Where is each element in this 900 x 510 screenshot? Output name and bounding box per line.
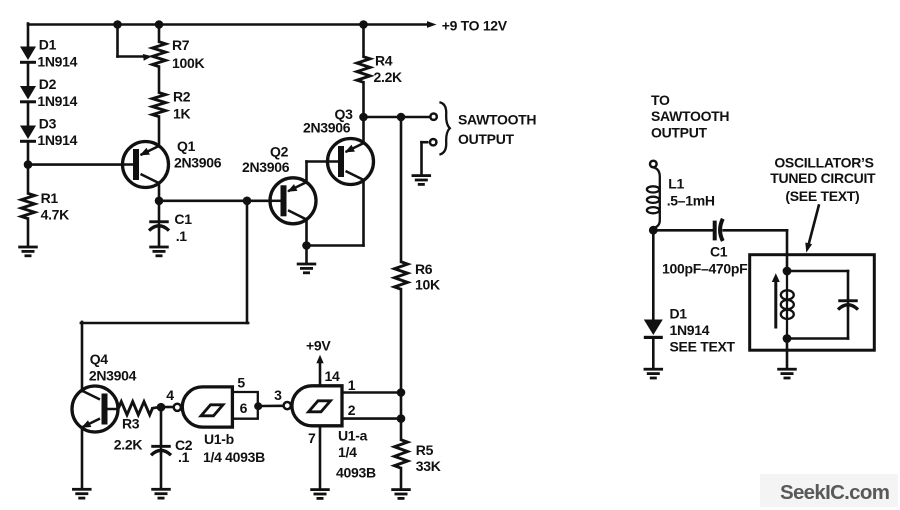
- junction on rail at R4: [359, 20, 368, 29]
- ground below D1 (right): [644, 368, 664, 380]
- diode D1 (right): [644, 320, 663, 340]
- transistor Q3 (PNP 2N3906): [327, 139, 374, 185]
- ground below U1-a pin 7: [310, 488, 330, 500]
- capacitor C1: [149, 220, 169, 230]
- resistor R3 (horizontal): [119, 402, 153, 415]
- svg-text:2N3906: 2N3906: [303, 120, 351, 136]
- svg-text:100K: 100K: [172, 55, 204, 71]
- svg-text:1N914: 1N914: [37, 53, 77, 69]
- capacitor C1 (right, series): [715, 219, 723, 241]
- ground below C2: [151, 488, 171, 500]
- transistor Q4 (NPN 2N3904): [72, 386, 119, 432]
- wire node to D1 (right): [652, 230, 655, 320]
- wire output node down to R6: [400, 117, 403, 262]
- svg-text:3: 3: [274, 387, 282, 403]
- svg-text:SeekIC.com: SeekIC.com: [780, 481, 889, 504]
- svg-text:.1: .1: [178, 449, 190, 465]
- wire D2 to D3: [27, 102, 30, 126]
- resistor R1: [21, 193, 34, 218]
- svg-text:2: 2: [348, 402, 356, 418]
- ground below Q4: [72, 488, 92, 500]
- svg-text:OUTPUT: OUTPUT: [458, 131, 515, 147]
- svg-text:Q4: Q4: [90, 351, 109, 367]
- watermark SeekIC.com: [760, 474, 898, 507]
- wire node to U1-b output bubble: [165, 406, 174, 409]
- svg-text:R1: R1: [41, 190, 59, 206]
- wire C2 to ground: [160, 452, 163, 489]
- svg-text:SEE TEXT: SEE TEXT: [670, 339, 736, 355]
- wire R5 to ground: [400, 468, 403, 489]
- op gate U1-b output bubble (pin 4): [174, 404, 181, 411]
- tank capacitor: [838, 299, 858, 309]
- svg-text:Q1: Q1: [177, 138, 196, 154]
- transistor Q1 (PNP 2N3906): [122, 142, 169, 188]
- wire tank top to cap: [787, 270, 848, 273]
- svg-text:100pF–470pF: 100pF–470pF: [662, 261, 748, 277]
- svg-text:4: 4: [166, 387, 174, 403]
- junction on rail at wiper: [113, 20, 122, 29]
- junction Q2 base wire to gate feedback: [243, 197, 252, 206]
- wire Q3 collector across: [307, 244, 364, 247]
- ground below Q2: [297, 263, 317, 275]
- svg-text:OSCILLATOR’S: OSCILLATOR’S: [774, 155, 873, 171]
- pointer arrow to box: [808, 206, 819, 247]
- svg-text:R2: R2: [173, 89, 191, 105]
- svg-text:R3: R3: [122, 416, 140, 432]
- wire to output terminal: [364, 116, 431, 119]
- svg-text:U1-b: U1-b: [204, 431, 234, 447]
- R7 wiper arrowhead: [143, 54, 152, 61]
- wire pin 1: [342, 391, 401, 394]
- junction on rail at R7: [155, 20, 164, 29]
- arrowhead +V rail: [427, 21, 437, 28]
- tank inductor: [781, 271, 794, 339]
- output terminal upper: [430, 114, 436, 120]
- svg-text:2.2K: 2.2K: [114, 436, 143, 452]
- wire feedback across: [81, 322, 248, 325]
- junction tank top: [783, 267, 792, 276]
- svg-text:R6: R6: [415, 261, 433, 277]
- svg-text:4093B: 4093B: [336, 464, 376, 480]
- wire node A to Q1 base: [28, 163, 123, 166]
- svg-text:TO: TO: [651, 92, 670, 108]
- svg-text:6: 6: [240, 400, 248, 416]
- svg-text:2.2K: 2.2K: [374, 69, 403, 85]
- wire rail to D1: [27, 24, 30, 48]
- wire R4 to Q3 emitter node: [362, 82, 365, 117]
- svg-text:D1: D1: [39, 36, 57, 52]
- wire tank to ground: [786, 339, 789, 369]
- svg-text:+9 TO 12V: +9 TO 12V: [442, 18, 508, 34]
- capacitor C2: [151, 445, 171, 455]
- wire R6 to pin1 node: [400, 289, 403, 392]
- wire Q2 emitter up: [305, 162, 308, 183]
- output brace: [439, 102, 449, 154]
- wire R3 to node: [153, 406, 158, 409]
- svg-text:TUNED CIRCUIT: TUNED CIRCUIT: [770, 170, 876, 186]
- wire lower terminal to ground: [422, 141, 428, 144]
- ground below R5: [391, 488, 411, 500]
- wire pin 2: [342, 417, 401, 420]
- resistor R6: [394, 262, 407, 289]
- wire R1 to ground: [27, 219, 30, 247]
- svg-text:OUTPUT: OUTPUT: [651, 125, 708, 141]
- diode D2: [20, 86, 36, 103]
- resistor R4: [357, 57, 370, 83]
- wire +V supply rail: [28, 23, 428, 26]
- wire pin 14 supply: [319, 362, 322, 387]
- svg-text:7: 7: [308, 430, 316, 446]
- junction tank bottom: [783, 334, 792, 343]
- junction R4 / Q3 emitter / output: [359, 113, 368, 122]
- wire Q2 emitter to Q3 base: [307, 160, 328, 163]
- R7 wiper wire: [116, 25, 119, 57]
- wire D1 to ground (right): [652, 339, 655, 369]
- nand gate U1-b body: [182, 387, 232, 427]
- svg-text:1N914: 1N914: [670, 322, 710, 338]
- svg-text:.1: .1: [176, 228, 188, 244]
- pins 5-6 tie rectangle: [232, 392, 257, 419]
- svg-text:1N914: 1N914: [37, 132, 77, 148]
- wire Q1 collector to Q2 base: [159, 200, 271, 203]
- wire C1 to tuned circuit: [724, 229, 787, 232]
- wire cap bottom: [847, 306, 850, 339]
- ground below output terminal: [412, 174, 432, 186]
- wire node to C1: [158, 201, 161, 221]
- ground below C1: [149, 246, 169, 258]
- svg-text:1/4 4093B: 1/4 4093B: [203, 449, 265, 465]
- arrowhead +9V supply: [316, 355, 323, 364]
- svg-text:33K: 33K: [416, 458, 441, 474]
- junction Q1 collector / C1 / Q2 base wire: [155, 197, 164, 206]
- svg-text:C1: C1: [174, 211, 192, 227]
- svg-text:SAWTOOTH: SAWTOOTH: [651, 108, 729, 124]
- wire node to C1 (right): [653, 229, 712, 232]
- output terminal lower: [430, 139, 436, 145]
- node A junction (diode chain / R1 / Q1 base): [24, 160, 33, 169]
- nand gate U1-a body: [292, 386, 342, 426]
- wire R7 to R2: [158, 67, 161, 93]
- wire pin 7 to ground: [319, 426, 322, 489]
- transistor Q2 (PNP 2N3906): [270, 178, 317, 224]
- resistor R2: [152, 93, 165, 117]
- svg-text:R5: R5: [416, 442, 434, 458]
- wire pin3 to U1-a bubble: [262, 404, 283, 407]
- wire R2 to Q1 emitter: [158, 117, 161, 147]
- schmitt symbol U1-b: [201, 405, 223, 416]
- ground below tuned circuit: [777, 368, 797, 380]
- potentiometer R7: [152, 42, 165, 67]
- junction pins 5-6 to pin 3 wire: [254, 402, 262, 410]
- svg-text:D2: D2: [39, 76, 57, 92]
- svg-text:1N914: 1N914: [37, 93, 77, 109]
- schmitt symbol U1-a: [309, 401, 331, 412]
- wire into box: [786, 230, 789, 271]
- svg-text:1: 1: [348, 377, 356, 393]
- wire pin1 node to pin2 node: [400, 393, 403, 419]
- wire Q4 emitter to ground: [81, 427, 84, 488]
- wire node to C2: [160, 407, 163, 445]
- wire Q1 collector down: [158, 183, 161, 201]
- tuned circuit box: [750, 255, 875, 351]
- junction Q2/Q3 collectors: [302, 241, 311, 250]
- svg-text:D3: D3: [39, 115, 57, 131]
- wire C1 to ground: [158, 227, 161, 246]
- svg-text:+9V: +9V: [306, 337, 331, 353]
- svg-text:SAWTOOTH: SAWTOOTH: [458, 111, 536, 127]
- svg-text:(SEE TEXT): (SEE TEXT): [785, 188, 859, 204]
- wire feedback down: [246, 201, 249, 323]
- input terminal: [650, 161, 657, 168]
- svg-text:5: 5: [237, 374, 245, 390]
- wire Q3 emitter up: [362, 117, 365, 143]
- wire pin2 node to R5: [400, 419, 403, 440]
- svg-text:.5–1mH: .5–1mH: [667, 192, 715, 208]
- inductor L1: [647, 167, 660, 228]
- svg-text:D1: D1: [670, 305, 688, 321]
- svg-text:2N3906: 2N3906: [242, 159, 290, 175]
- op gate U1-a output bubble (pin 3): [284, 402, 291, 409]
- resistor R5: [394, 440, 407, 468]
- svg-text:U1-a: U1-a: [338, 428, 368, 444]
- wire rail to R4: [362, 25, 365, 57]
- junction R3 / C2 / U1-b output: [157, 403, 166, 412]
- tank arrow (tuning): [774, 281, 777, 327]
- diode D3: [20, 126, 36, 143]
- diode D1: [20, 47, 36, 64]
- svg-text:C1: C1: [710, 243, 728, 259]
- wire collector node to ground: [305, 246, 308, 264]
- svg-text:1/4: 1/4: [338, 444, 357, 460]
- wire D1 to D2: [27, 63, 30, 87]
- svg-text:4.7K: 4.7K: [41, 207, 70, 223]
- wire cap top: [847, 271, 850, 300]
- junction pin 1 node: [397, 388, 406, 397]
- ground below R1: [18, 246, 38, 258]
- svg-text:14: 14: [325, 368, 340, 384]
- wire tank bottom to cap: [787, 337, 848, 340]
- svg-text:10K: 10K: [415, 277, 440, 293]
- svg-text:L1: L1: [668, 175, 684, 191]
- svg-text:2N3906: 2N3906: [174, 155, 222, 171]
- wire Q3 collector down: [362, 180, 365, 245]
- junction output / divider: [397, 113, 406, 122]
- wire rail to R7: [158, 25, 161, 42]
- wire Q2 collector down: [305, 219, 308, 246]
- junction L1 / C1 / D1 node: [649, 226, 658, 235]
- svg-text:R7: R7: [172, 37, 190, 53]
- svg-text:R4: R4: [375, 53, 393, 69]
- svg-text:Q2: Q2: [270, 144, 289, 160]
- svg-text:2N3904: 2N3904: [89, 368, 137, 384]
- wire feedback to Q4 collector: [81, 322, 84, 391]
- junction pin 2 node: [397, 414, 406, 423]
- svg-text:1K: 1K: [173, 106, 190, 122]
- wire D3 to node A: [27, 142, 30, 194]
